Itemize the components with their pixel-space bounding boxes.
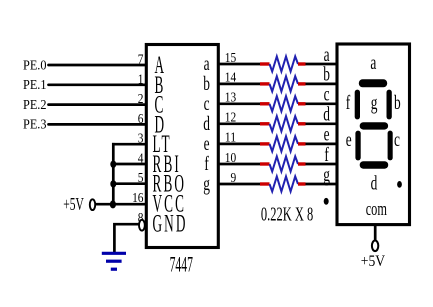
IC U1 part label 7447 bbox=[170, 252, 193, 277]
resistor R2 (segment b) bbox=[219, 76, 337, 91]
svg-text:e: e bbox=[346, 128, 352, 150]
segment g bar bbox=[360, 122, 388, 129]
svg-text:com: com bbox=[366, 200, 388, 220]
svg-text:g: g bbox=[203, 172, 210, 194]
U1 pin 14 number bbox=[225, 71, 236, 86]
svg-text:g: g bbox=[371, 91, 378, 113]
7-segment display DS1 body bbox=[337, 44, 410, 225]
IC U1 7447 body bbox=[146, 45, 218, 248]
svg-text:d: d bbox=[203, 112, 210, 134]
U1 output name g bbox=[203, 172, 210, 194]
U1 pin name C bbox=[155, 91, 166, 118]
U1 pin name B bbox=[155, 72, 166, 99]
U1 pin 15 number bbox=[225, 51, 236, 66]
display label e bbox=[346, 128, 352, 150]
junction +5V bus at VCC bbox=[110, 200, 116, 208]
display label com bbox=[366, 200, 388, 220]
display label g bbox=[371, 91, 378, 113]
U1 pin name D bbox=[155, 111, 167, 138]
U1 pin 3 number bbox=[138, 132, 144, 147]
svg-text:f: f bbox=[324, 143, 329, 165]
display input name a bbox=[324, 43, 330, 65]
display input name b bbox=[323, 63, 330, 85]
+5V power rail label (bottom) bbox=[361, 253, 386, 270]
display label c bbox=[394, 128, 400, 150]
svg-text:PE.2: PE.2 bbox=[23, 98, 47, 113]
svg-text:c: c bbox=[394, 128, 400, 150]
svg-text:b: b bbox=[394, 91, 401, 113]
svg-text:7447: 7447 bbox=[170, 252, 193, 277]
wire bus to U1 LT pin 3 bbox=[112, 143, 146, 146]
U1 output name a bbox=[204, 52, 210, 74]
svg-text:e: e bbox=[324, 123, 330, 145]
segment f bar bbox=[355, 90, 360, 120]
+5V power rail label (left) bbox=[63, 196, 84, 215]
resistor R4 (segment d) bbox=[219, 116, 337, 131]
wire bus to U1 RBI pin 4 bbox=[113, 163, 146, 166]
svg-text:d: d bbox=[371, 172, 378, 194]
svg-text:PE.0: PE.0 bbox=[23, 58, 47, 73]
U1 pin 6 number bbox=[138, 112, 144, 127]
segment a bar bbox=[359, 79, 387, 87]
resistor R1 (segment a) bbox=[219, 56, 337, 71]
display label d bbox=[371, 172, 378, 194]
U1 pin name GND bbox=[153, 210, 188, 237]
segment d bar bbox=[360, 161, 389, 169]
svg-text:g: g bbox=[323, 163, 330, 185]
ground symbol bbox=[102, 253, 126, 269]
U1 pin name LT bbox=[153, 131, 172, 158]
node PE.0 label bbox=[23, 58, 47, 73]
resistor value label 0.22K X 8 bbox=[261, 203, 313, 226]
svg-text:f: f bbox=[204, 152, 209, 174]
segment c bar bbox=[388, 131, 393, 161]
junction bus at RBI bbox=[110, 161, 116, 168]
segment e bar bbox=[355, 131, 360, 161]
svg-text:1: 1 bbox=[138, 72, 144, 87]
U1 pin name RBO bbox=[153, 170, 187, 197]
U1 output name c bbox=[204, 92, 210, 114]
resistor R3 (segment c) bbox=[219, 96, 337, 111]
display label f bbox=[346, 91, 351, 113]
wire display com to +5V terminal (bottom) bbox=[374, 226, 377, 242]
U1 pin 9 number bbox=[231, 171, 237, 186]
U1 pin 11 number bbox=[225, 131, 236, 146]
wire PE.0 to U1 pin A bbox=[49, 64, 147, 67]
U1 pin 16 number bbox=[132, 191, 143, 206]
segment b bar bbox=[387, 90, 392, 120]
svg-text:+5V: +5V bbox=[63, 196, 84, 215]
svg-text:PE.3: PE.3 bbox=[23, 118, 47, 133]
U1 pin 13 number bbox=[225, 91, 236, 106]
display input name g bbox=[323, 163, 330, 185]
wire bus to U1 RBO pin 5 bbox=[113, 182, 146, 185]
display decimal point bbox=[397, 181, 402, 188]
wire +5V vertical bus bbox=[112, 143, 115, 204]
svg-text:0.22K X 8: 0.22K X 8 bbox=[261, 203, 313, 226]
svg-text:GND: GND bbox=[153, 210, 188, 237]
svg-text:e: e bbox=[204, 132, 210, 154]
U1 pin 5 number bbox=[138, 171, 144, 186]
wire GND pin to ground bbox=[114, 224, 139, 252]
U1 pin name RBI bbox=[153, 151, 181, 178]
svg-text:PE.1: PE.1 bbox=[23, 78, 47, 93]
dot after value label bbox=[324, 198, 329, 205]
U1 pin 7 number bbox=[138, 53, 144, 68]
resistor R7 (segment g) bbox=[219, 176, 337, 191]
U1 pin 4 number bbox=[138, 152, 144, 167]
U1 pin name A bbox=[155, 52, 167, 79]
U1 output name e bbox=[204, 132, 210, 154]
U1 output name d bbox=[203, 112, 210, 134]
svg-text:a: a bbox=[370, 51, 376, 73]
wire PE.3 to U1 pin D bbox=[49, 123, 147, 126]
node PE.1 label bbox=[23, 78, 47, 93]
U1 output name f bbox=[204, 152, 209, 174]
display label b bbox=[394, 91, 401, 113]
U1 pin 1 number bbox=[138, 72, 144, 87]
U1 pin 8 number bbox=[138, 211, 144, 226]
svg-text:c: c bbox=[324, 83, 330, 105]
svg-text:6: 6 bbox=[138, 112, 144, 127]
node PE.3 label bbox=[23, 118, 47, 133]
node PE.2 label bbox=[23, 98, 47, 113]
svg-text:c: c bbox=[204, 92, 210, 114]
U1 pin 2 number bbox=[138, 92, 144, 107]
svg-text:7: 7 bbox=[138, 53, 144, 68]
U1 pin 12 number bbox=[225, 111, 236, 126]
wire +5V terminal to U1 VCC pin 16 bbox=[95, 203, 146, 206]
U1 GND pin 8 bubble bbox=[139, 220, 145, 231]
display input name d bbox=[323, 103, 330, 125]
display input name e bbox=[324, 123, 330, 145]
display label a bbox=[370, 51, 376, 73]
wire PE.1 to U1 pin B bbox=[49, 83, 147, 86]
svg-text:2: 2 bbox=[138, 92, 144, 107]
U1 pin 10 number bbox=[225, 151, 236, 166]
U1 pin name VCC bbox=[153, 190, 187, 217]
svg-text:+5V: +5V bbox=[361, 253, 386, 270]
+5V terminal circle (bottom) bbox=[372, 241, 378, 252]
svg-text:f: f bbox=[346, 91, 351, 113]
U1 output name b bbox=[203, 72, 210, 94]
resistor R6 (segment f) bbox=[219, 156, 337, 171]
svg-text:d: d bbox=[323, 103, 330, 125]
+5V terminal circle (left) bbox=[90, 199, 95, 210]
junction bus at RBO bbox=[110, 180, 116, 187]
resistor R5 (segment e) bbox=[219, 136, 337, 151]
wire PE.2 to U1 pin C bbox=[49, 103, 147, 106]
display input name c bbox=[324, 83, 330, 105]
display input name f bbox=[324, 143, 329, 165]
